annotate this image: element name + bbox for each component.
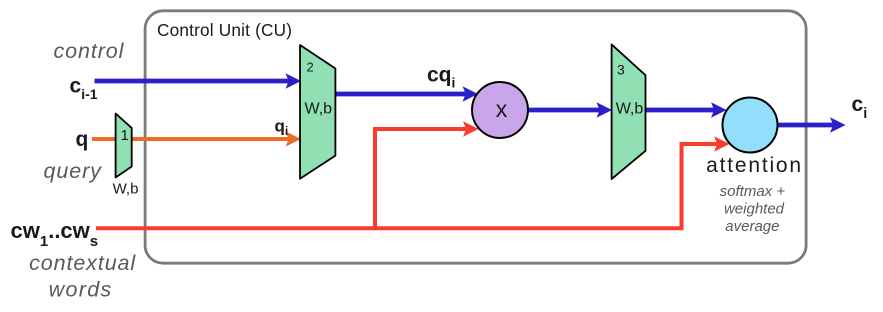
wire attention to c_i output (blue arrow) [778,117,846,133]
svg-text:Control Unit (CU): Control Unit (CU) [157,20,292,40]
svg-text:cw1..cws: cw1..cws [11,218,99,250]
wire cw (red line from contextual words) [96,144,718,228]
svg-text:W,b: W,b [305,101,333,118]
svg-text:W,b: W,b [616,101,644,118]
red arrowhead into multiply node [463,121,479,137]
svg-text:control: control [53,39,124,63]
wire multiply to layer 3 (blue arrow) [528,102,612,118]
svg-text:x: x [496,96,508,122]
svg-text:W,b: W,b [113,180,139,197]
wire q (orange arrow into linear layer 2, passing behind layer 1) [92,131,301,146]
svg-text:contextual: contextual [29,251,136,275]
svg-text:query: query [44,159,103,183]
attention node (cyan circle) [723,98,778,153]
svg-text:ci: ci [852,93,868,122]
red arrowhead into attention [714,136,730,152]
svg-text:words: words [49,278,113,302]
linear layer 2 (green trapezoid) [300,45,335,179]
svg-text:2: 2 [307,60,314,75]
wire cw branch (red branch up into multiply node) [375,129,467,230]
wire layer 3 to attention (blue arrow) [646,102,727,118]
svg-text:ci-1: ci-1 [70,75,98,102]
wire cq_i (blue arrow from layer 2 into multiply node) [335,86,478,102]
svg-text:attention: attention [706,154,803,177]
svg-text:1: 1 [121,127,129,144]
multiply node (purple circle) [472,82,528,138]
svg-text:average: average [725,218,779,235]
svg-text:weighted: weighted [724,201,785,218]
svg-text:q: q [76,128,89,151]
wire c_i-1 (blue arrow into linear layer 2) [95,73,302,89]
svg-text:3: 3 [617,62,625,78]
svg-text:cqi: cqi [427,64,455,91]
svg-text:qi: qi [275,116,289,138]
control unit box (CU) [145,11,806,263]
label softmax + weighted average [720,183,786,235]
svg-text:softmax +: softmax + [720,183,786,200]
linear layer 3 (green trapezoid) [612,44,646,179]
linear layer 1 (green trapezoid) [116,114,132,178]
